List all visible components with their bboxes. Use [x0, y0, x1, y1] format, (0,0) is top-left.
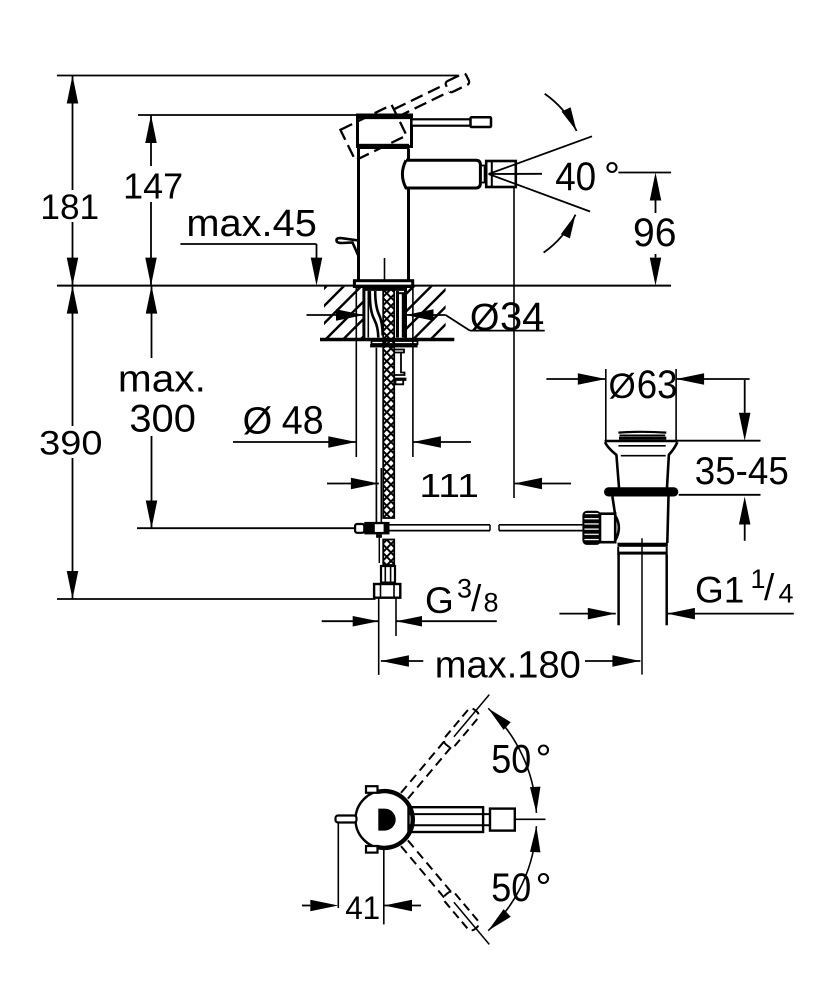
- dim line 147 vertical: [150, 115, 152, 166]
- mounting hole edges: [362, 286, 365, 340]
- plan circle thick arc: [378, 791, 413, 848]
- plan spout axis line: [515, 818, 546, 820]
- drain tailpipe: [617, 555, 620, 626]
- svg-text:63: 63: [637, 363, 678, 407]
- drain knob collar: [600, 514, 615, 543]
- drain push button: [618, 431, 666, 434]
- plan arc 50deg upper: [488, 708, 536, 813]
- dim max180: [381, 655, 409, 667]
- extension lines O63: [605, 369, 607, 441]
- arrow 96 bottom: [650, 258, 662, 286]
- svg-text:34: 34: [500, 295, 544, 339]
- tab below clamp: [376, 534, 382, 537]
- dashed handle raised position: [340, 70, 478, 161]
- leader O34: [446, 315, 470, 331]
- plan arc 50deg lower: [488, 826, 536, 931]
- clamp left piece: [355, 524, 364, 533]
- braided hose upper: [383, 288, 394, 518]
- faucet cap dark ring: [357, 144, 409, 149]
- shank bracket right: [396, 291, 399, 338]
- plan spout: [409, 807, 484, 832]
- leader max.45: [180, 243, 316, 245]
- svg-text:max.180: max.180: [435, 645, 581, 687]
- arrow arc lower: [561, 212, 580, 238]
- aerator: [486, 161, 516, 187]
- supply pipe curve in shank: [370, 291, 379, 338]
- drain neck inner lines: [618, 445, 665, 447]
- dim G1 1/4 arrows: [559, 613, 615, 615]
- dim ref line bottom (390 lower extent): [57, 598, 376, 600]
- extension lines G3/8: [378, 599, 380, 675]
- svg-text:G: G: [425, 580, 454, 621]
- plan circle tabs: [366, 786, 378, 793]
- arrow 181 bottom: [67, 258, 79, 286]
- arrow 390 bottom: [67, 571, 79, 599]
- lever grip: [471, 117, 492, 127]
- faucet body: [357, 149, 360, 282]
- svg-text:300: 300: [129, 398, 196, 441]
- dim line max300 vertical: [151, 286, 153, 358]
- svg-text:max.: max.: [118, 358, 206, 400]
- spray axis line right of label: [618, 172, 671, 174]
- svg-text:50: 50: [491, 866, 531, 910]
- svg-text:°: °: [604, 155, 620, 199]
- svg-text:°: °: [536, 866, 552, 910]
- arrow arc upper: [562, 107, 582, 133]
- dim line 96: [655, 201, 657, 214]
- dim 111: [327, 483, 379, 485]
- arc 40deg upper: [545, 94, 577, 131]
- drain body: [612, 497, 615, 514]
- drain O-ring: [604, 487, 678, 496]
- spout tip band: [480, 166, 484, 183]
- svg-text:Ø: Ø: [609, 367, 636, 406]
- svg-text:41: 41: [345, 890, 380, 926]
- dim 35-45 arrows: [744, 380, 746, 413]
- svg-text:181: 181: [40, 188, 99, 227]
- svg-text:G1: G1: [695, 569, 744, 610]
- svg-text:max.45: max.45: [186, 203, 317, 245]
- lever bar: [412, 119, 472, 125]
- drain knurled knob: [583, 512, 600, 544]
- svg-text:147: 147: [123, 165, 183, 206]
- dim line 181/390 vertical: [72, 76, 74, 191]
- dim ref line 147 upper extent: [138, 114, 356, 116]
- lift rod vertical: [375, 348, 377, 522]
- dim 41: [337, 822, 339, 908]
- arrow 390 top: [67, 286, 79, 314]
- dim O63: [546, 378, 605, 380]
- plan dashed lever lower 50deg: [399, 839, 494, 948]
- mounting surface line: [57, 285, 671, 287]
- slab hatch left: [324, 287, 364, 339]
- spray line lower: [489, 174, 591, 212]
- arrow 181 top: [67, 76, 79, 104]
- svg-text:°: °: [536, 738, 552, 782]
- svg-text:3: 3: [457, 574, 472, 604]
- braided hose lower: [383, 540, 394, 566]
- extension lines O48: [355, 287, 357, 457]
- drain collar bulge: [615, 516, 619, 541]
- hose nut: [374, 584, 400, 598]
- svg-text:111: 111: [419, 468, 479, 505]
- dim ref line top (181 upper extent): [57, 75, 458, 77]
- spray line upper: [489, 136, 593, 174]
- pop-up linkage rod horizontal: [390, 524, 491, 526]
- arrow 96 top: [650, 173, 662, 201]
- dim G3/8: [322, 620, 379, 622]
- drain collar bands: [618, 543, 668, 547]
- slab hatch right: [406, 287, 446, 339]
- drain centerline: [641, 538, 643, 674]
- arc 40deg lower: [544, 215, 576, 253]
- extension line 111 right (from aerator): [513, 187, 515, 498]
- plan dashed lever upper 50deg: [399, 690, 494, 799]
- svg-text:4: 4: [779, 578, 794, 608]
- svg-text:/: /: [471, 578, 482, 619]
- flange centerline: [384, 341, 386, 349]
- drain neck sides: [605, 442, 619, 487]
- arrow max.45 down: [311, 258, 323, 286]
- svg-text:Ø: Ø: [243, 401, 273, 443]
- svg-text:Ø: Ø: [470, 297, 500, 339]
- faucet body centerline: [384, 258, 386, 281]
- ref line 35-45 top: [676, 440, 760, 442]
- drain top flange: [605, 440, 678, 443]
- arrow max300 bottom: [146, 501, 158, 529]
- dim ref line max300 bottom: [137, 527, 355, 529]
- arrow 147 bottom: [145, 258, 157, 286]
- rod guide below flange: [395, 350, 406, 385]
- svg-text:50: 50: [491, 738, 531, 782]
- svg-text:8: 8: [484, 588, 499, 618]
- dim arrows O34: [307, 314, 365, 316]
- dim O48: [233, 441, 356, 443]
- slab bottom line: [320, 338, 454, 341]
- svg-text:390: 390: [39, 425, 102, 463]
- clamp on lift rod: [364, 522, 389, 535]
- mounting flange under slab: [372, 341, 418, 344]
- faucet cap: [358, 115, 412, 147]
- spout: [402, 160, 480, 188]
- spray line axis: [489, 173, 543, 175]
- svg-text:96: 96: [633, 211, 677, 255]
- ref line 35-45 bottom: [679, 494, 761, 496]
- svg-text:40: 40: [555, 155, 596, 199]
- arrow max300 top: [146, 286, 158, 314]
- plan aerator: [490, 809, 515, 831]
- plan cartridge D shape: [378, 809, 395, 831]
- svg-text:35-45: 35-45: [695, 450, 789, 493]
- plan pop-up rod left: [336, 816, 357, 823]
- svg-text:48: 48: [282, 399, 324, 443]
- plan body circle: [356, 791, 414, 849]
- arrow 147 top: [145, 115, 157, 143]
- hose ferrule: [381, 566, 395, 583]
- svg-text:/: /: [764, 567, 775, 608]
- faucet base plate: [354, 281, 412, 287]
- pop-up knob on body: [337, 238, 359, 256]
